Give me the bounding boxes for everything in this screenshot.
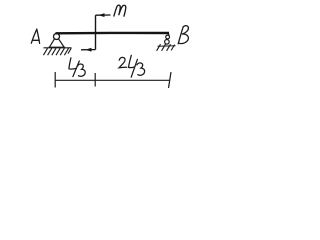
dimension line xyxy=(55,79,170,81)
moment couple symbol: vertical line xyxy=(81,15,111,50)
label m xyxy=(114,5,126,16)
beam xyxy=(56,32,170,35)
moment arrowhead bottom xyxy=(85,48,91,52)
dimension tick middle xyxy=(94,73,96,87)
pin support A xyxy=(44,34,72,48)
moment arrowhead top xyxy=(98,13,104,17)
hatching under support A xyxy=(43,48,71,55)
hatching under support B xyxy=(157,44,175,51)
dimension tick left xyxy=(54,72,56,88)
label A xyxy=(31,29,39,43)
dimension tick right xyxy=(169,72,172,88)
label B xyxy=(178,26,188,44)
dimension label L/3 xyxy=(69,58,85,77)
dimension label 2L/3 xyxy=(119,55,145,77)
roller support B xyxy=(158,34,176,47)
